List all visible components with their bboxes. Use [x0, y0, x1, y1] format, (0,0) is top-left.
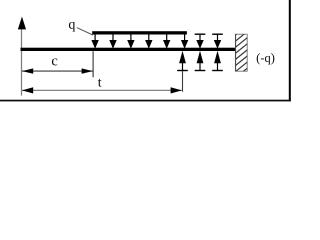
- down arrow 3: [127, 34, 134, 49]
- wall face line: [235, 34, 237, 71]
- down arrow 5: [163, 34, 170, 49]
- left extension line / reaction stem: [21, 28, 23, 96]
- label q: [69, 22, 75, 32]
- label t: [98, 79, 102, 87]
- down arrow 6: [181, 34, 188, 49]
- up arrow 2 (-q): [195, 51, 206, 71]
- down arrow 1: [91, 34, 98, 49]
- down T-arrow 8: [212, 34, 223, 49]
- page right border: [289, 0, 291, 101]
- page bottom border: [0, 100, 291, 102]
- fixed wall hatching: [235, 25, 248, 78]
- extension tick at load start: [92, 51, 94, 77]
- down arrow 2: [109, 34, 116, 49]
- label c: [52, 58, 57, 65]
- beam: [21, 48, 236, 51]
- dimension t line: [22, 87, 182, 93]
- down T-arrow 7: [195, 34, 206, 49]
- up arrow 3 (-q): [212, 51, 223, 71]
- dimension c line: [22, 68, 93, 73]
- q leader line: [77, 28, 93, 35]
- down arrow 4: [145, 34, 152, 49]
- label (-q): [257, 53, 275, 64]
- reaction force arrowhead (left support): [18, 17, 26, 30]
- distributed load bar q: [92, 31, 187, 34]
- up arrow 1 (-q), with dimension extension stem: [177, 51, 188, 92]
